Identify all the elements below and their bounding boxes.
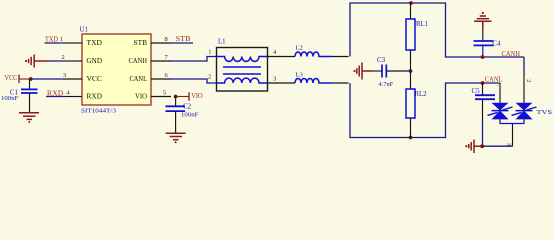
svg-text:L1: L1: [218, 39, 226, 46]
svg-text:SIT1044T/3: SIT1044T/3: [81, 108, 117, 115]
svg-text:8: 8: [165, 36, 168, 43]
svg-text:CANL: CANL: [130, 75, 148, 83]
svg-text:VCC: VCC: [87, 75, 103, 83]
svg-text:CANH: CANH: [502, 49, 521, 58]
svg-text:2: 2: [525, 79, 532, 82]
svg-text:5: 5: [163, 90, 166, 97]
svg-text:100nF: 100nF: [181, 111, 199, 118]
svg-text:C3: C3: [377, 56, 386, 64]
svg-text:RL1: RL1: [416, 21, 428, 28]
svg-text:TVS: TVS: [537, 109, 553, 116]
svg-text:2: 2: [62, 54, 65, 61]
svg-text:2: 2: [208, 74, 211, 81]
svg-text:STB: STB: [134, 39, 148, 47]
svg-text:VIO: VIO: [135, 93, 147, 101]
svg-text:CANL: CANL: [485, 74, 503, 83]
svg-text:STB: STB: [176, 34, 191, 43]
svg-text:1: 1: [60, 36, 63, 43]
svg-text:L3: L3: [296, 72, 304, 79]
svg-text:C4: C4: [492, 39, 501, 47]
svg-text:100nF: 100nF: [1, 95, 19, 102]
svg-text:TXD: TXD: [45, 35, 58, 44]
svg-text:1: 1: [208, 48, 211, 55]
svg-text:3: 3: [273, 76, 276, 83]
svg-text:3: 3: [505, 143, 512, 146]
svg-text:4.7nF: 4.7nF: [379, 82, 394, 88]
svg-text:GND: GND: [87, 57, 103, 65]
svg-text:CANH: CANH: [129, 57, 148, 65]
svg-text:3: 3: [63, 72, 66, 79]
svg-text:RXD: RXD: [47, 88, 64, 97]
svg-text:L2: L2: [296, 45, 303, 52]
svg-text:VCC: VCC: [5, 73, 18, 82]
svg-text:VIO: VIO: [191, 93, 203, 100]
svg-text:C5: C5: [472, 87, 481, 95]
svg-text:RL2: RL2: [415, 91, 428, 98]
svg-text:U1: U1: [79, 25, 88, 33]
svg-text:C2: C2: [183, 102, 192, 110]
svg-text:RXD: RXD: [87, 93, 103, 101]
svg-text:TXD: TXD: [87, 39, 103, 47]
